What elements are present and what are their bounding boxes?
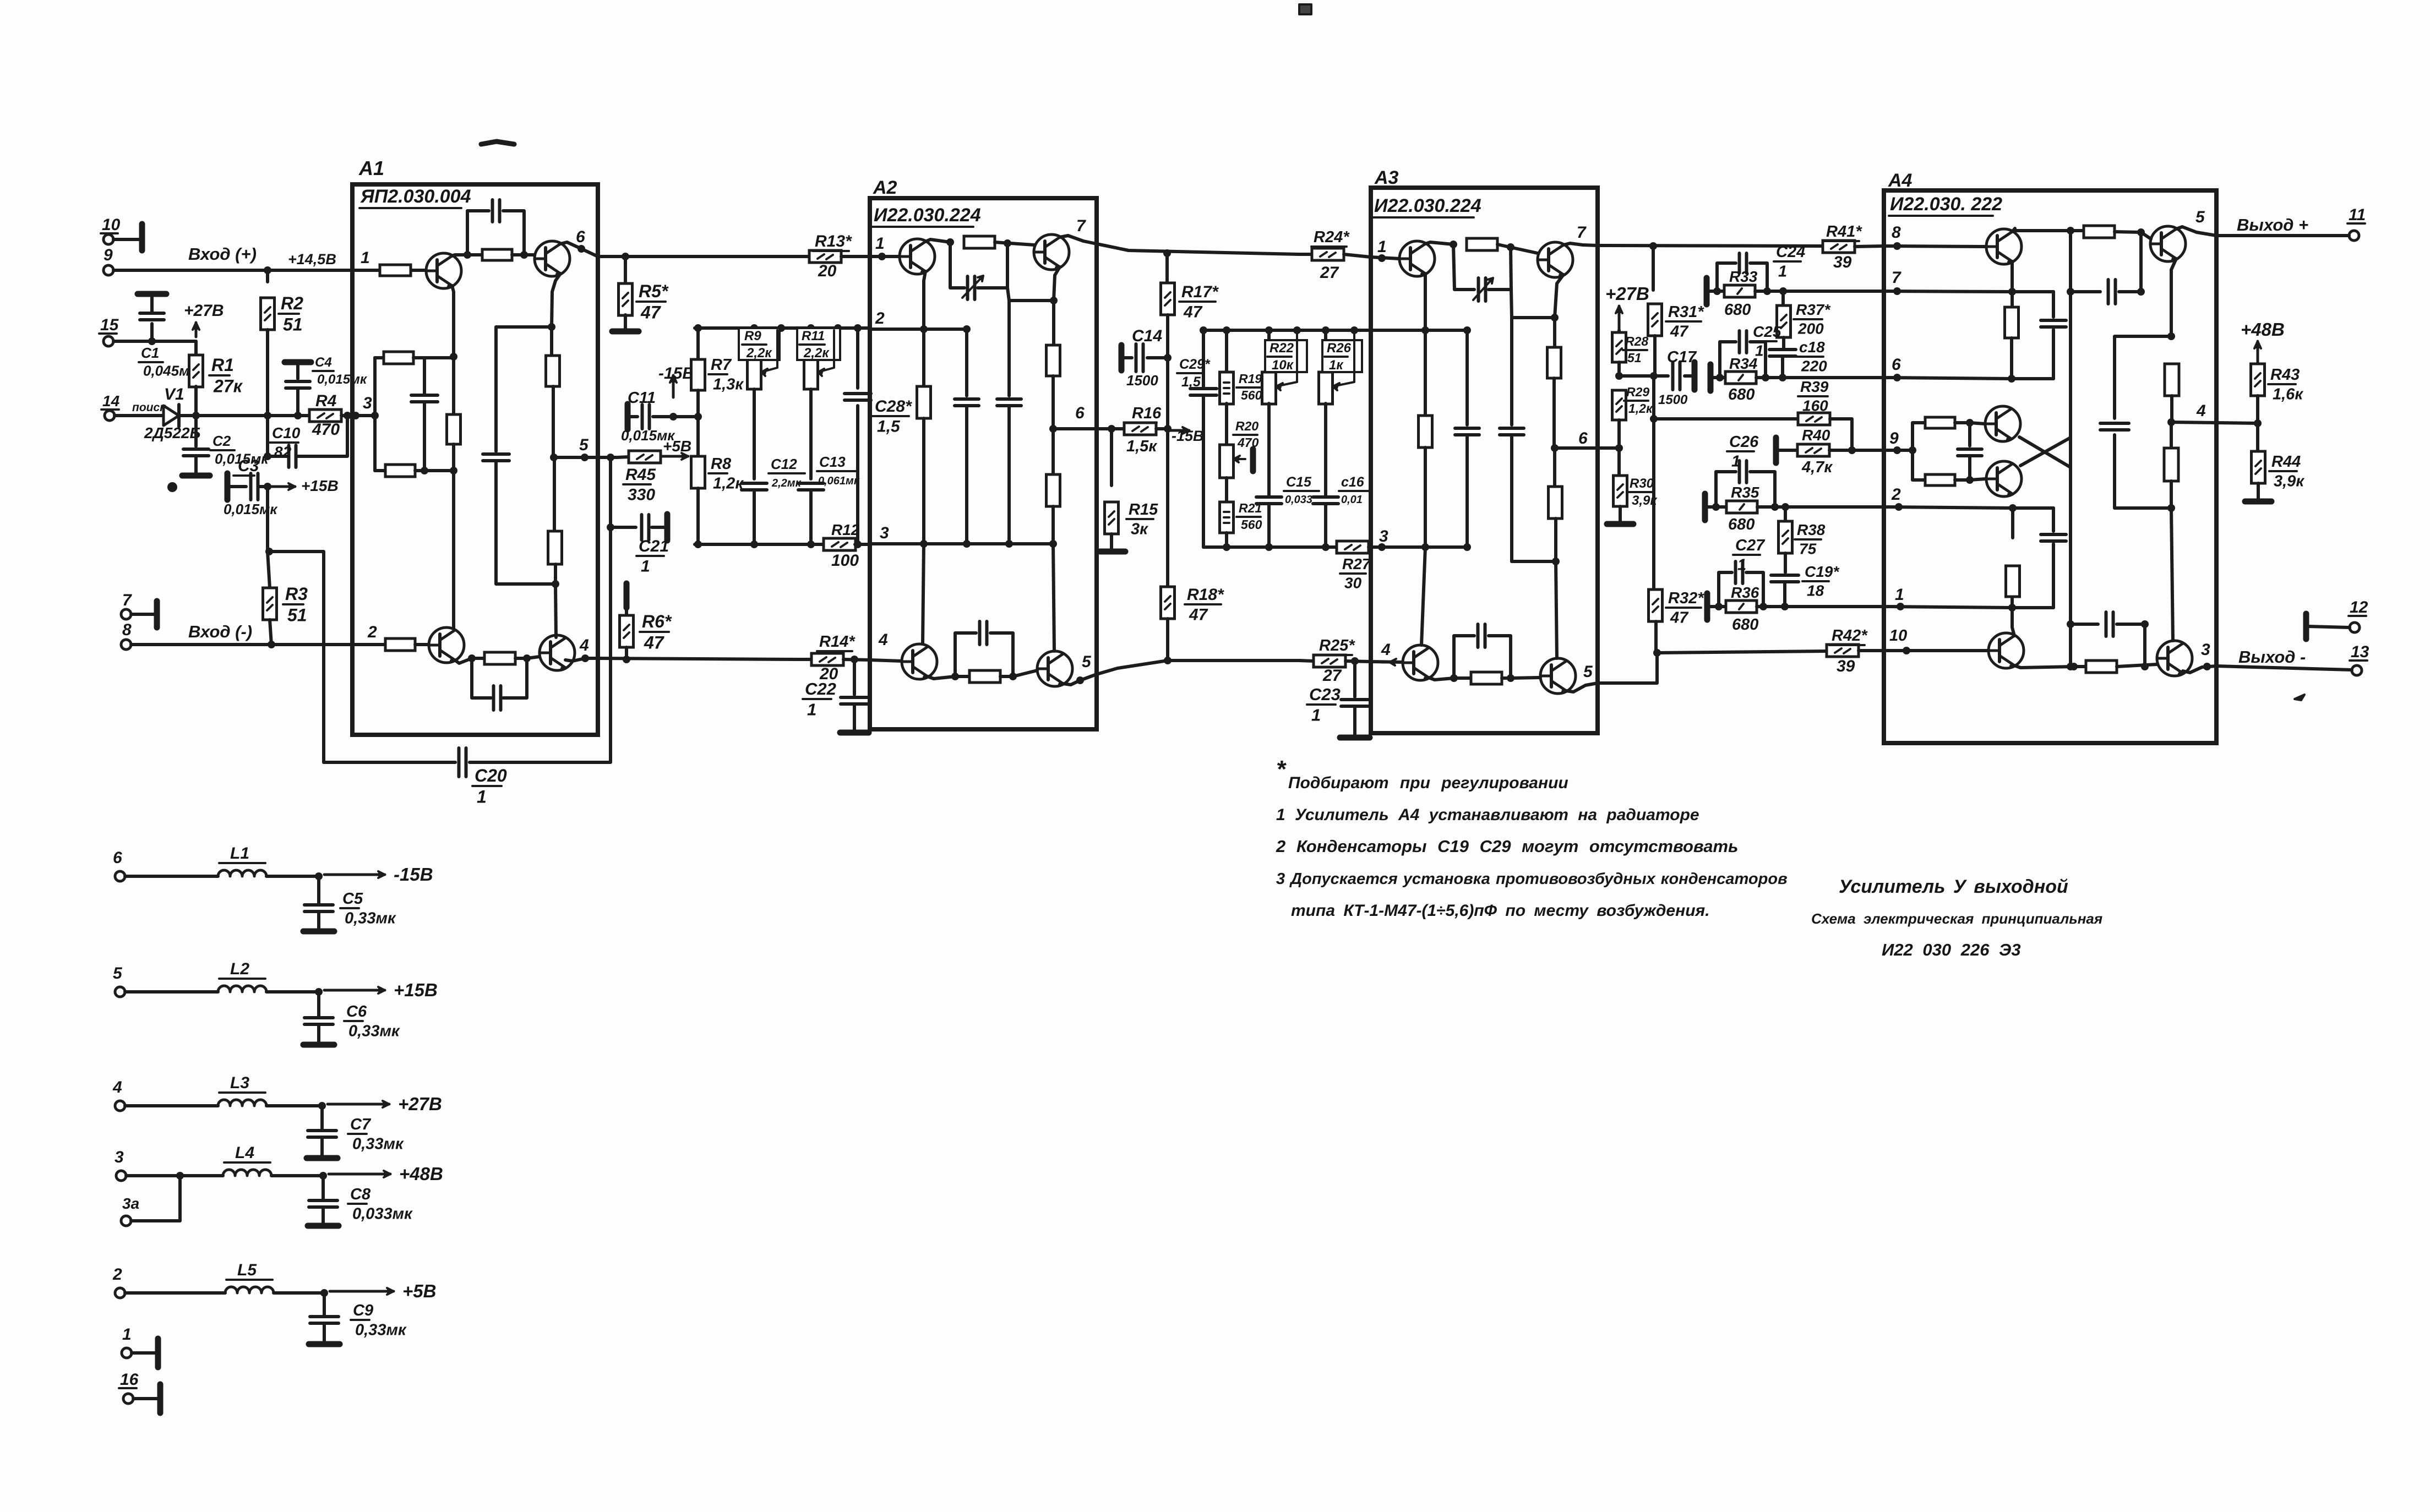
svg-text:1 Усилитель А4 устанавливают н: 1 Усилитель А4 устанавливают на радиатор… [1276,806,1699,824]
svg-text:R36: R36 [1731,584,1759,601]
svg-text:С2: С2 [213,433,231,449]
capacitor A1 bottom loop [472,658,491,698]
svg-text:39: 39 [1833,253,1852,271]
svg-text:3,9к: 3,9к [2274,473,2304,490]
svg-text:R11: R11 [802,329,825,343]
svg-text:R41*: R41* [1826,223,1862,241]
svg-text:6: 6 [576,228,585,246]
svg-text:+15В: +15В [301,477,339,494]
resistor R36 [1719,605,1785,608]
svg-text:R22: R22 [1270,341,1294,356]
svg-text:R16: R16 [1132,405,1162,422]
svg-text:1к: 1к [1329,358,1344,373]
node -15В (C11) [672,375,675,397]
wire A4 T1 top to resistor [2012,228,2068,232]
pin 7 row A4 [1884,291,2053,292]
trimmer capacitor A2 [950,242,965,288]
svg-text:Вход (+): Вход (+) [188,244,257,264]
wire A4 T2 to pin 5 output [2176,227,2216,236]
capacitor С5 [317,876,320,904]
svg-text:R34: R34 [1729,355,1758,372]
svg-text:С26: С26 [1729,433,1759,451]
svg-text:1,2к: 1,2к [713,475,744,493]
svg-text:С23: С23 [1309,685,1341,704]
resistor A4 left upper chain [2011,292,2014,307]
svg-text:типа КТ-1-М47-(1÷5,6)пФ по мес: типа КТ-1-М47-(1÷5,6)пФ по месту возбужд… [1291,902,1710,920]
capacitor С9 [323,1293,326,1316]
svg-text:1: 1 [1895,586,1904,604]
svg-text:200: 200 [1797,320,1824,337]
svg-text:47: 47 [1183,303,1203,321]
capacitor C13 [809,389,813,479]
resistor A1 top mid [467,253,481,256]
svg-text:8: 8 [1892,223,1901,242]
resistor R32 [1649,589,1663,621]
svg-text:0,061мк: 0,061мк [818,475,860,487]
svg-text:10к: 10к [1272,358,1294,373]
node +5В [330,1290,394,1293]
capacitor С6 [317,992,320,1017]
svg-text:V1: V1 [164,385,184,403]
svg-text:9: 9 [1889,429,1899,447]
svg-text:6: 6 [1075,404,1085,422]
pin 3 terminal [116,1171,126,1181]
row R35/C26 [1702,494,1708,520]
wire to T1 [411,269,425,272]
capacitor A4 upper pair [2052,292,2055,317]
svg-text:1: 1 [1311,705,1321,724]
resistor A2 T1 chain [922,329,925,386]
svg-text:0,33мк: 0,33мк [348,1023,400,1040]
capacitor A3 mid-right [1511,290,1555,318]
svg-text:L4: L4 [235,1144,254,1162]
pin 2 row A3 inside [1382,329,1467,332]
pin 8 row A4 [1884,246,1986,247]
svg-text:R20: R20 [1235,419,1258,433]
capacitor A4 right side [2115,336,2171,418]
capacitor C22 [853,659,856,695]
svg-text:А1: А1 [358,157,384,179]
capacitor C1 [150,324,154,341]
svg-text:680: 680 [1728,386,1755,403]
wire A2 pin4 to T3 [870,660,902,661]
svg-text:2: 2 [1891,485,1901,504]
svg-text:5: 5 [1082,653,1092,671]
pin 6 row A4 [1884,378,2053,379]
ground at pin 7 [131,613,154,616]
capacitor A4 bracket [1968,423,1971,446]
node +15В [269,485,295,488]
svg-text:3: 3 [1379,527,1388,545]
amplifier block A2 И22.030.224 [870,198,1097,729]
pin 16 terminal [123,1394,133,1404]
resistor R29 [1612,390,1626,420]
wire R45 junction rail down [609,457,612,658]
capacitor C2 [194,416,198,446]
svg-text:-15В: -15В [1172,428,1204,444]
svg-text:1500: 1500 [1126,372,1158,389]
capacitor C4 [285,359,311,365]
wire A2 T3 to T4 [928,676,968,679]
svg-text:С21: С21 [639,537,669,555]
wire A2 pin1 to T1 [870,255,900,258]
svg-text:Выход +: Выход + [2237,215,2308,234]
resistor R2 [266,270,269,282]
ground at pin 16 [133,1397,157,1400]
svg-text:R44: R44 [2271,453,2301,471]
resistor R14 [797,658,811,661]
resistor R41 [1823,241,1855,253]
scan artifact smudge [481,141,514,144]
capacitor C19 [1784,553,1787,572]
row R36/C27 [1704,593,1710,620]
capacitor A4 top link [2071,290,2100,293]
svg-text:8: 8 [122,621,132,639]
svg-text:7: 7 [122,591,132,609]
wire T1 emitter chain [452,286,454,357]
svg-text:7: 7 [1577,223,1587,242]
svg-text:20: 20 [818,262,837,280]
capacitor bracket middle [423,358,426,395]
svg-text:R24*: R24* [1314,228,1350,246]
svg-text:330: 330 [628,486,655,504]
svg-text:1: 1 [477,787,487,806]
capacitor A2 mid-right [1007,288,1054,301]
svg-text:С15: С15 [1286,474,1312,490]
node +5В [662,455,688,458]
resistor A4 top [2071,229,2084,232]
svg-text:R31*: R31* [1668,303,1704,321]
svg-text:+48В: +48В [2241,319,2285,340]
wire A3 pin4 to T3 [1371,662,1403,662]
pin 6 terminal [115,871,125,881]
capacitor C28 [856,328,859,388]
svg-text:1,6к: 1,6к [2273,386,2303,403]
svg-text:+5В: +5В [402,1281,436,1301]
pin 2 terminal [115,1288,125,1298]
resistor R4 [295,414,309,417]
resistor R18 [1161,587,1175,619]
R19 network rail top (pin2 A3) [1203,329,1382,332]
svg-text:3 Допускается установка против: 3 Допускается установка противовозбудных… [1276,870,1788,888]
transistor A3-T3 [1403,645,1438,680]
node +48В (filter) [329,1173,390,1176]
row R34/C25 [1708,364,1714,391]
transistor A4-T3 bottom left [1988,633,2024,668]
capacitor C14 [1119,345,1125,370]
svg-text:+27В: +27В [398,1094,442,1114]
pin 12 ground [2303,614,2309,639]
svg-text:75: 75 [1799,541,1817,558]
svg-text:С20: С20 [475,766,507,785]
amplifier block A1 ЯП2.030.004 [352,184,598,735]
resistor R5 [624,256,627,283]
svg-text:2: 2 [367,623,377,641]
resistor R37 [1781,291,1785,305]
svg-text:4: 4 [2196,402,2206,420]
transistor A2-T4 [1037,651,1072,686]
svg-text:R32*: R32* [1668,589,1704,607]
svg-text:С9: С9 [353,1302,373,1319]
svg-text:1: 1 [641,558,650,576]
svg-text:C1: C1 [141,345,159,361]
capacitor A4 bottom link [2071,623,2098,626]
svg-text:-15В: -15В [658,364,694,383]
resistor A2 T2 chain upper [1052,301,1055,345]
svg-text:+27В: +27В [184,302,224,320]
svg-text:ЯП2.030.004: ЯП2.030.004 [360,186,471,207]
capacitor C27 [1719,572,1732,607]
wire A2 T2 emitter chain [1054,267,1060,301]
capacitor C26 [1716,472,1736,507]
svg-text:27к: 27к [213,376,243,396]
wire T3 to T4 row [455,658,484,663]
wire A2 T4 to pin 5 [1063,674,1097,685]
svg-text:+14,5В: +14,5В [288,251,336,268]
resistor R31 [1648,304,1662,336]
resistor on T2 chain upper [550,327,553,356]
svg-text:3: 3 [115,1148,124,1166]
svg-text:С24: С24 [1776,243,1805,261]
capacitor C18 [1782,337,1785,349]
pin 7 terminal [121,609,131,619]
resistor R26 trimmer [1324,330,1327,372]
svg-text:R40: R40 [1802,427,1830,444]
resistor R8 [696,417,700,456]
svg-text:47: 47 [1670,323,1689,341]
svg-text:3: 3 [2201,641,2210,659]
pin 9 bracket A4 [1884,449,1913,452]
capacitor C8 [322,1176,325,1199]
resistor R30 [1617,448,1621,476]
svg-text:А4: А4 [1888,170,1913,191]
wire A4 T4 to pin 3 output [2183,666,2216,673]
resistor R45 [617,457,629,457]
feedback network rail bottom (pin3 A2) [695,543,825,546]
svg-text:поиск: поиск [132,401,166,414]
resistor R11 trimmer [809,328,813,357]
row R33/C24 [1704,278,1710,304]
svg-text:9: 9 [103,246,113,264]
cross-coupled wires A4 [2019,437,2071,467]
wire A3 T1 to top row [1425,242,1453,244]
resistor R15 [1110,429,1113,485]
svg-text:1: 1 [1737,556,1746,574]
capacitor A3 mid-left [1465,330,1469,425]
svg-text:С28*: С28* [875,397,912,416]
transistor A2-T3 [902,644,937,679]
svg-text:470: 470 [1237,435,1259,450]
svg-text:C3: C3 [238,457,259,475]
pin 10 terminal [103,234,113,244]
capacitor C11 [625,404,631,429]
svg-text:И22.030.224: И22.030.224 [1374,195,1481,216]
svg-text:R38: R38 [1797,521,1826,538]
resistor A4 right lower [2170,422,2173,449]
svg-text:С7: С7 [350,1116,372,1133]
pin 9 terminal [103,265,113,275]
transistor A1-T4 [540,635,575,670]
svg-text:5: 5 [2195,208,2205,226]
resistor A3 T2 chain upper [1553,318,1556,347]
svg-text:R7: R7 [711,356,732,374]
node Выход + output wire [2216,234,2349,237]
capacitor A2 mid-left [965,329,968,396]
resistor A2 T2 chain lower [1051,429,1055,474]
ground at pin 1 [132,1351,155,1355]
wire A4 T2 emitter chain [2171,259,2176,336]
resistor A1 input top [352,269,379,272]
transistor A4-T5 [1985,406,2020,441]
capacitor C20 feedback [324,761,455,764]
svg-text:2: 2 [875,309,885,327]
wire input+ to A1 pin 1 [113,269,352,272]
resistor R39 [1654,417,1799,421]
resistor R28 [1617,330,1621,332]
svg-text:4: 4 [878,631,888,649]
svg-text:Выход -: Выход - [2238,647,2306,667]
central vertical A4 [2069,231,2072,667]
R31 rail down to R32 [1652,376,1655,590]
svg-text:5: 5 [113,964,123,982]
svg-text:С25: С25 [1753,323,1781,340]
svg-text:1: 1 [875,234,885,253]
wire A2 T2 to pin 7 [1060,236,1097,244]
capacitor C21 [607,523,614,531]
wire T4 to pin 4 [565,658,598,661]
svg-text:С12: С12 [771,456,797,472]
svg-text:0,015мк: 0,015мк [224,501,278,517]
svg-text:С13: С13 [819,454,846,470]
svg-text:+48В: +48В [399,1164,443,1184]
svg-text:С8: С8 [350,1186,371,1203]
capacitor C24 [1717,263,1736,291]
svg-text:220: 220 [1801,358,1827,375]
svg-text:+27В: +27В [1605,283,1649,304]
svg-text:R8: R8 [711,455,732,473]
svg-text:560: 560 [1241,517,1262,532]
svg-text:1,2к: 1,2к [1628,401,1653,416]
svg-text:3а: 3а [122,1195,139,1212]
resistor R34 [1720,376,1783,379]
svg-text:С19*: С19* [1805,563,1839,580]
wire A3 pin7 to A4 pin8 top bus [1598,245,1822,246]
svg-text:R3: R3 [285,584,308,604]
svg-text:А3: А3 [1374,167,1399,188]
wire A3 pin5 up to R42 row [1598,653,1657,683]
R19 network rail bottom (pin3 A3) [1203,545,1338,549]
svg-text:6: 6 [113,849,122,867]
svg-text:Вход (-): Вход (-) [188,622,252,641]
svg-text:2: 2 [112,1265,122,1284]
wire A4 T3 up chain [2012,608,2014,636]
inductor L1 [125,875,218,878]
diode V1 ГД522Б [115,414,164,417]
svg-text:R29: R29 [1626,385,1649,399]
transistor A1-T3 [429,627,464,663]
pin 1 row A4 [1884,607,2053,608]
svg-text:27: 27 [1322,667,1342,685]
amplifier block A4 И22.030.222 [1884,190,2216,743]
svg-text:680: 680 [1728,516,1755,533]
svg-text:2 Конденсаторы С19 С29 могу: 2 Конденсаторы С19 С29 могут отсутствова… [1276,837,1738,856]
svg-text:с18: с18 [1799,339,1825,356]
wire T2 emitter chain [552,274,560,327]
wire branch to C20 loop [269,552,324,762]
wire left rail down to R3 [268,487,270,588]
resistor on T2 chain lower [553,457,556,531]
feedback network rail top (pin2 A2) [695,326,870,330]
svg-text:И22.030.224: И22.030.224 [874,205,981,226]
svg-text:L2: L2 [230,960,249,978]
svg-text:И22 030 226 Э3: И22 030 226 Э3 [1882,940,2021,959]
svg-text:100: 100 [831,552,859,570]
svg-text:С4: С4 [315,355,332,370]
svg-text:R12: R12 [831,521,860,538]
svg-text:680: 680 [1724,301,1751,319]
svg-text:Схема электрическая принципиал: Схема электрическая принципиальная [1811,910,2102,927]
svg-text:39: 39 [1837,657,1855,675]
wire R2 down rail [266,330,269,456]
svg-text:C11: C11 [628,389,656,407]
parallel RC loop A1 top [467,211,489,255]
transistor A2-T2 [1034,234,1069,270]
resistor R20 trimmer [1225,403,1228,444]
svg-text:47: 47 [1670,609,1689,627]
resistor R44 [2256,423,2259,452]
capacitor C29 [1202,330,1205,388]
svg-text:10: 10 [102,216,121,234]
svg-text:3к: 3к [1131,521,1148,538]
svg-text:11: 11 [2349,206,2366,224]
pin 1 terminal [122,1348,132,1358]
svg-text:-15В: -15В [394,864,433,885]
svg-text:0,33мк: 0,33мк [355,1322,407,1339]
ground at R5 [624,315,627,329]
wire T1 chain to T3 [452,471,455,629]
svg-text:470: 470 [312,421,340,439]
svg-text:R28: R28 [1625,334,1648,348]
resistor R21 [1225,478,1228,501]
wire row2 to A4 pin7 [1783,290,1884,293]
svg-text:680: 680 [1732,616,1758,634]
wire A3 T3 to T4 [1429,678,1471,680]
wire T2 chain to T4 [555,584,556,637]
svg-text:R19: R19 [1239,372,1262,386]
capacitor C25 [1720,342,1736,378]
svg-text:51: 51 [287,605,307,625]
resistor R27 [1337,541,1369,553]
svg-text:R15: R15 [1129,501,1158,518]
svg-text:1: 1 [361,249,370,267]
resistor R35 [1716,505,1785,509]
svg-text:160: 160 [1802,397,1828,414]
svg-text:1,5к: 1,5к [1126,438,1157,455]
resistor R38 [1784,507,1787,521]
svg-text:0,033: 0,033 [1285,494,1312,506]
svg-text:R4: R4 [315,392,337,410]
svg-text:+15В: +15В [394,980,438,1000]
resistor R24 [1299,253,1312,256]
pin 8 terminal [121,640,131,649]
wire A3 T4 to pin 5 [1566,683,1598,692]
svg-text:560: 560 [1241,388,1262,402]
resistor R25 [1299,661,1314,661]
svg-text:R9: R9 [744,329,761,343]
svg-text:R17*: R17* [1181,283,1219,301]
svg-text:27: 27 [1320,264,1339,282]
svg-text:С5: С5 [342,890,363,908]
